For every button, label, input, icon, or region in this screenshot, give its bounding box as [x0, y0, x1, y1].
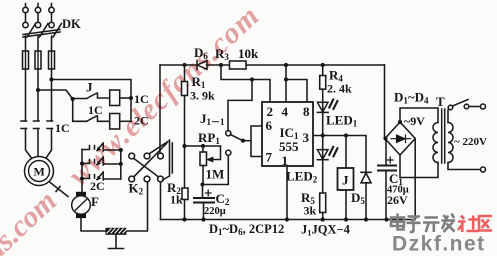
node J relay top: [344, 133, 348, 137]
svg-text:~ 220V: ~ 220V: [454, 136, 487, 148]
K2 cross links: [134, 142, 168, 177]
common bottom rail: [161, 219, 416, 221]
wire D6 junction down to pin2 / J1-1: [221, 65, 270, 102]
left rail top: D6 cathode line down to K2: [159, 65, 161, 153]
capacitor C1 electrolytic: [385, 139, 387, 166]
resistor R2: [182, 188, 188, 200]
contactor coil 2C: [110, 114, 120, 130]
resistor R4: [322, 65, 324, 76]
main contacts 1C (three poles): [21, 120, 53, 122]
wires contacts to motor: [26, 129, 52, 160]
svg-text:1C: 1C: [88, 103, 103, 117]
R1/R2 junction node: [182, 144, 186, 148]
LED1: [317, 102, 328, 112]
bridge rectifier D1~D4: [385, 122, 415, 155]
pin 1 wire: [286, 166, 288, 220]
svg-text:6: 6: [266, 118, 273, 133]
primary bottom to plug: [448, 163, 480, 170]
pins 6-7 tie bracket: [251, 126, 262, 157]
wires from switch to fuses: [26, 36, 52, 51]
svg-text:2: 2: [267, 104, 274, 119]
svg-text:3. 9k: 3. 9k: [190, 89, 215, 103]
node phase2 to J contact branch: [36, 88, 40, 92]
wire K2 c3 bottom to common rail: [160, 182, 162, 219]
aux contact 1C (NO): [87, 116, 110, 122]
svg-text:26V: 26V: [387, 193, 408, 207]
svg-text:J: J: [342, 173, 349, 188]
control rail from phase3 to contactor coils: [52, 80, 132, 122]
wire F bottom to chassis line: [81, 182, 148, 231]
chassis hatched block: [106, 228, 127, 235]
fuse FU1: [23, 51, 29, 69]
tachogenerator F: [76, 192, 86, 196]
knife switch DK blades: [27, 24, 62, 38]
svg-text:2. 4k: 2. 4k: [327, 82, 352, 96]
svg-text:220μ: 220μ: [204, 206, 226, 217]
svg-text:T: T: [436, 94, 445, 109]
svg-text:1C: 1C: [134, 92, 149, 106]
+V rail right side down: [384, 65, 386, 139]
svg-text:DK: DK: [62, 17, 81, 31]
fuse FU2: [35, 51, 41, 69]
svg-text:4: 4: [282, 104, 289, 119]
supply terminals L1 L2 L3: [23, 4, 54, 28]
node R1 top: [182, 63, 186, 67]
switch J1-1 contacts: [226, 131, 231, 136]
wire F top to 2C rail: [81, 150, 83, 192]
phase wires below fuses: [26, 69, 52, 121]
diode D5: [361, 172, 371, 183]
RP1 wiper arrow loop: [203, 146, 221, 160]
node R4 top: [321, 63, 325, 67]
bridge minus wire to rail: [414, 139, 416, 220]
node RP1 top: [201, 144, 205, 148]
svg-text:10k: 10k: [238, 46, 259, 61]
resistor R5: [320, 193, 326, 213]
svg-text:1k: 1k: [170, 193, 183, 207]
resistor R1: [184, 65, 186, 82]
bridge AC top to transformer secondary: [400, 108, 438, 123]
2C contact row 3: [82, 172, 121, 180]
relay coil J: [345, 136, 347, 169]
core: [442, 109, 445, 163]
svg-text:3: 3: [303, 130, 310, 145]
2C contact row 2: [82, 157, 121, 165]
reversing switch K2 contacts: [129, 153, 135, 159]
pin 3 wire: [313, 136, 366, 173]
branch phase2 to J contact: [38, 90, 73, 99]
2C right rail: [120, 150, 122, 179]
relay contact J (NO): [73, 93, 110, 99]
svg-text:2C: 2C: [134, 114, 149, 128]
primary winding: [448, 123, 453, 163]
svg-text:1C: 1C: [55, 121, 70, 135]
resistor R3: [230, 61, 247, 69]
svg-text:~9V: ~9V: [404, 114, 425, 128]
diode D6: [197, 61, 207, 70]
node LED1/pin3: [321, 133, 325, 137]
node 1C coil right: [129, 96, 133, 100]
svg-text:F: F: [91, 194, 99, 209]
node phase3 to control rail: [49, 77, 53, 81]
fuse FU3: [49, 51, 55, 69]
node pins 4,8 feed: [284, 63, 288, 67]
svg-text:555: 555: [279, 139, 299, 154]
earth ground: [109, 235, 124, 249]
svg-text:M: M: [34, 165, 45, 179]
svg-text:J: J: [86, 80, 93, 95]
bridge AC bottom to secondary bottom: [400, 155, 438, 178]
svg-text:3k: 3k: [304, 204, 317, 218]
svg-text:2C: 2C: [90, 179, 105, 193]
watermark www.elecfans.com diagonal: [0, 0, 266, 256]
K2 actuator bracket: [163, 140, 173, 180]
top supply rail y=65: [160, 64, 385, 66]
potentiometer RP1: [202, 146, 204, 152]
svg-text:8: 8: [303, 104, 310, 119]
svg-text:D1~D4: D1~D4: [394, 90, 429, 106]
secondary winding: [433, 123, 438, 163]
node D6/R3 junction to pin2: [219, 63, 223, 67]
svg-text:7: 7: [266, 150, 273, 165]
IC1 555 timer: [262, 102, 313, 166]
primary top to switch: [447, 110, 449, 123]
svg-text:1M: 1M: [206, 167, 225, 182]
capacitor C2 electrolytic: [194, 198, 214, 203]
2C contact row 1: [82, 143, 121, 151]
branch to 1C aux contact: [73, 99, 87, 121]
LED2: [322, 136, 324, 160]
svg-text:Dzkf.net: Dzkf.net: [392, 233, 486, 256]
shaft coupling motor to F: [50, 182, 69, 197]
bottom-right watermark: 电子开发 (gray) 社区 (red) hand-drawn: [391, 214, 455, 233]
DK linkage bar: [23, 30, 60, 38]
contactor coil 1C: [110, 90, 120, 106]
motor M: [25, 157, 54, 186]
